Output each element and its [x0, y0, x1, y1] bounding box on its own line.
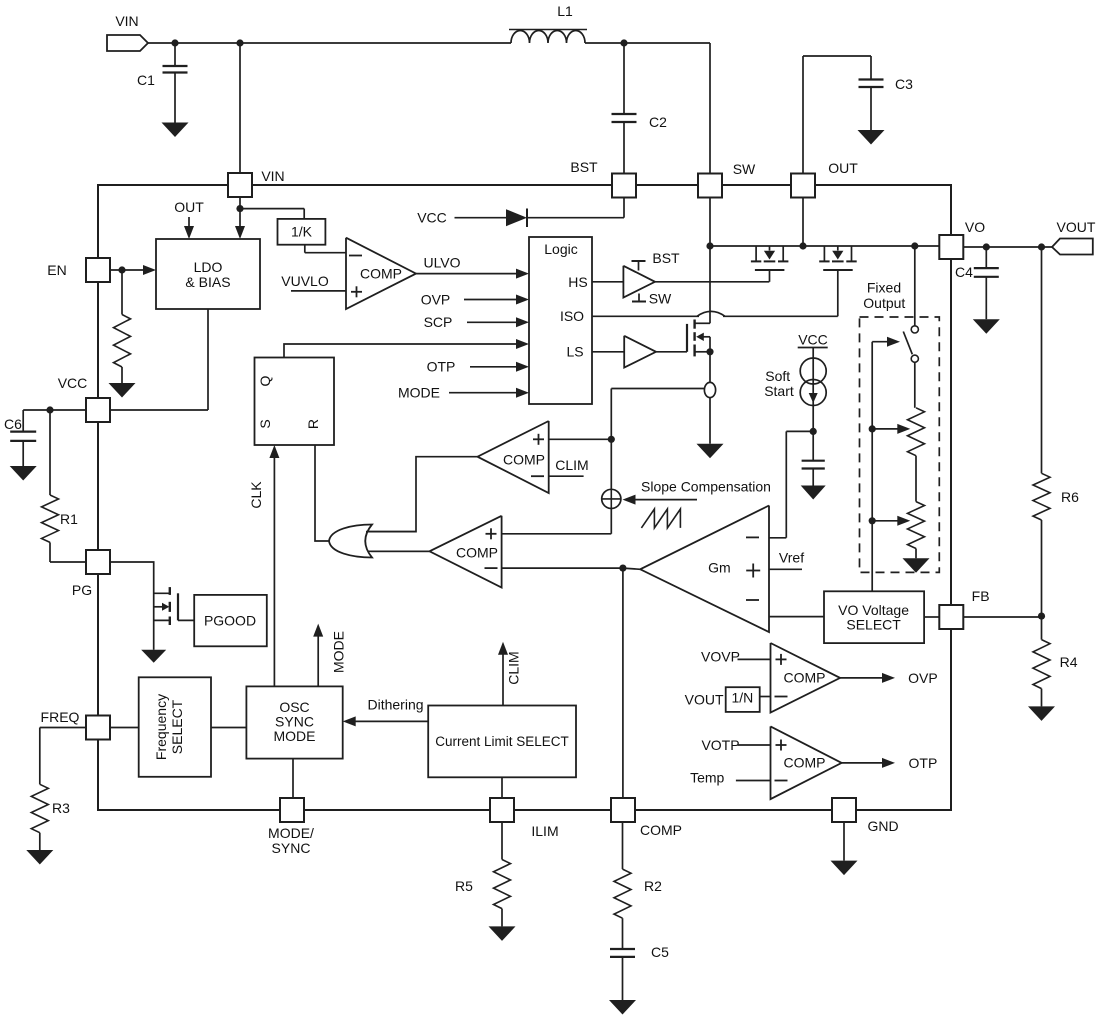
svg-text:C4: C4	[955, 264, 973, 280]
svg-text:COMP: COMP	[640, 822, 682, 838]
svg-text:CLIM: CLIM	[506, 651, 522, 684]
svg-text:R1: R1	[60, 511, 78, 527]
svg-text:1/K: 1/K	[291, 224, 313, 240]
svg-text:L1: L1	[557, 3, 573, 19]
svg-text:SYNC: SYNC	[272, 840, 311, 856]
svg-text:COMP: COMP	[360, 266, 402, 282]
svg-text:OVP: OVP	[421, 291, 451, 307]
svg-text:SCP: SCP	[424, 314, 453, 330]
svg-text:VIN: VIN	[261, 168, 284, 184]
svg-text:Soft: Soft	[765, 368, 790, 384]
svg-text:Q: Q	[257, 375, 273, 386]
svg-text:VOUT: VOUT	[1057, 219, 1096, 235]
svg-text:VO: VO	[965, 219, 985, 235]
svg-text:COMP: COMP	[503, 452, 545, 468]
svg-text:1/N: 1/N	[732, 689, 754, 705]
svg-text:Logic: Logic	[544, 241, 577, 257]
svg-text:SELECT: SELECT	[169, 699, 185, 754]
svg-text:OUT: OUT	[828, 160, 858, 176]
svg-text:MODE/: MODE/	[268, 825, 314, 841]
svg-text:C6: C6	[4, 416, 22, 432]
svg-text:SW: SW	[649, 291, 672, 307]
svg-text:Gm: Gm	[708, 560, 731, 576]
svg-text:R2: R2	[644, 878, 662, 894]
svg-text:OVP: OVP	[908, 670, 938, 686]
svg-text:LDO: LDO	[194, 259, 223, 275]
svg-text:CLIM: CLIM	[555, 457, 588, 473]
svg-text:BST: BST	[652, 250, 680, 266]
svg-text:R6: R6	[1061, 489, 1079, 505]
svg-text:Vref: Vref	[779, 550, 804, 566]
svg-text:VOTP: VOTP	[701, 737, 739, 753]
svg-text:GND: GND	[867, 818, 898, 834]
svg-text:C5: C5	[651, 944, 669, 960]
svg-text:MODE: MODE	[398, 385, 440, 401]
svg-text:LS: LS	[566, 344, 583, 360]
svg-text:OUT: OUT	[174, 199, 204, 215]
svg-text:COMP: COMP	[784, 670, 826, 686]
svg-text:ILIM: ILIM	[531, 823, 558, 839]
svg-text:SW: SW	[733, 161, 756, 177]
svg-text:MODE: MODE	[274, 728, 316, 744]
svg-text:Temp: Temp	[690, 769, 724, 785]
svg-text:CLK: CLK	[248, 481, 264, 509]
svg-text:Fixed: Fixed	[867, 280, 901, 296]
svg-text:VCC: VCC	[58, 375, 88, 391]
svg-text:C1: C1	[137, 72, 155, 88]
svg-text:COMP: COMP	[784, 755, 826, 771]
svg-text:Frequency: Frequency	[153, 694, 169, 760]
svg-text:HS: HS	[568, 274, 587, 290]
svg-text:OTP: OTP	[909, 755, 938, 771]
svg-text:C3: C3	[895, 76, 913, 92]
svg-text:SELECT: SELECT	[846, 617, 901, 633]
svg-text:C2: C2	[649, 114, 667, 130]
svg-text:OTP: OTP	[427, 359, 456, 375]
svg-text:EN: EN	[47, 262, 66, 278]
svg-text:& BIAS: & BIAS	[185, 274, 230, 290]
svg-text:BST: BST	[570, 159, 598, 175]
svg-text:Current Limit SELECT: Current Limit SELECT	[435, 734, 569, 749]
svg-text:VOUT: VOUT	[685, 692, 724, 708]
svg-text:R: R	[305, 419, 321, 429]
svg-text:VOVP: VOVP	[701, 648, 740, 664]
svg-text:Output: Output	[863, 295, 905, 311]
svg-text:VUVLO: VUVLO	[281, 273, 329, 289]
svg-text:VIN: VIN	[115, 13, 138, 29]
svg-text:Dithering: Dithering	[367, 697, 423, 713]
svg-text:FB: FB	[972, 588, 990, 604]
svg-text:S: S	[257, 419, 273, 428]
svg-text:VCC: VCC	[417, 210, 447, 226]
svg-text:R4: R4	[1060, 654, 1078, 670]
svg-text:MODE: MODE	[331, 631, 347, 673]
svg-text:COMP: COMP	[456, 545, 498, 561]
svg-text:PG: PG	[72, 582, 92, 598]
svg-text:Start: Start	[764, 383, 794, 399]
svg-text:Slope Compensation: Slope Compensation	[641, 479, 771, 495]
svg-text:ISO: ISO	[560, 308, 584, 324]
svg-text:R3: R3	[52, 800, 70, 816]
svg-text:VCC: VCC	[798, 332, 828, 348]
svg-text:FREQ: FREQ	[41, 709, 80, 725]
svg-text:ULVO: ULVO	[423, 255, 460, 271]
svg-text:PGOOD: PGOOD	[204, 612, 256, 628]
svg-text:R5: R5	[455, 878, 473, 894]
